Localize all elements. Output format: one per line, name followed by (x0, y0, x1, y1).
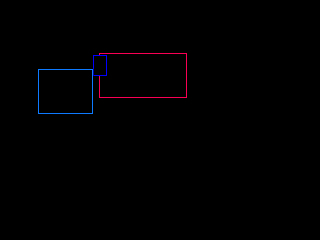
small blue square stroke (94, 56, 107, 76)
dark navy overlap segment on col 93 (93, 69, 94, 76)
big azure-blue rectangle (39, 70, 93, 114)
transition pixel above dark segment (93, 68, 94, 69)
red rectangle (100, 54, 187, 98)
small blue square black fill (hides red left edge) (94, 56, 106, 75)
